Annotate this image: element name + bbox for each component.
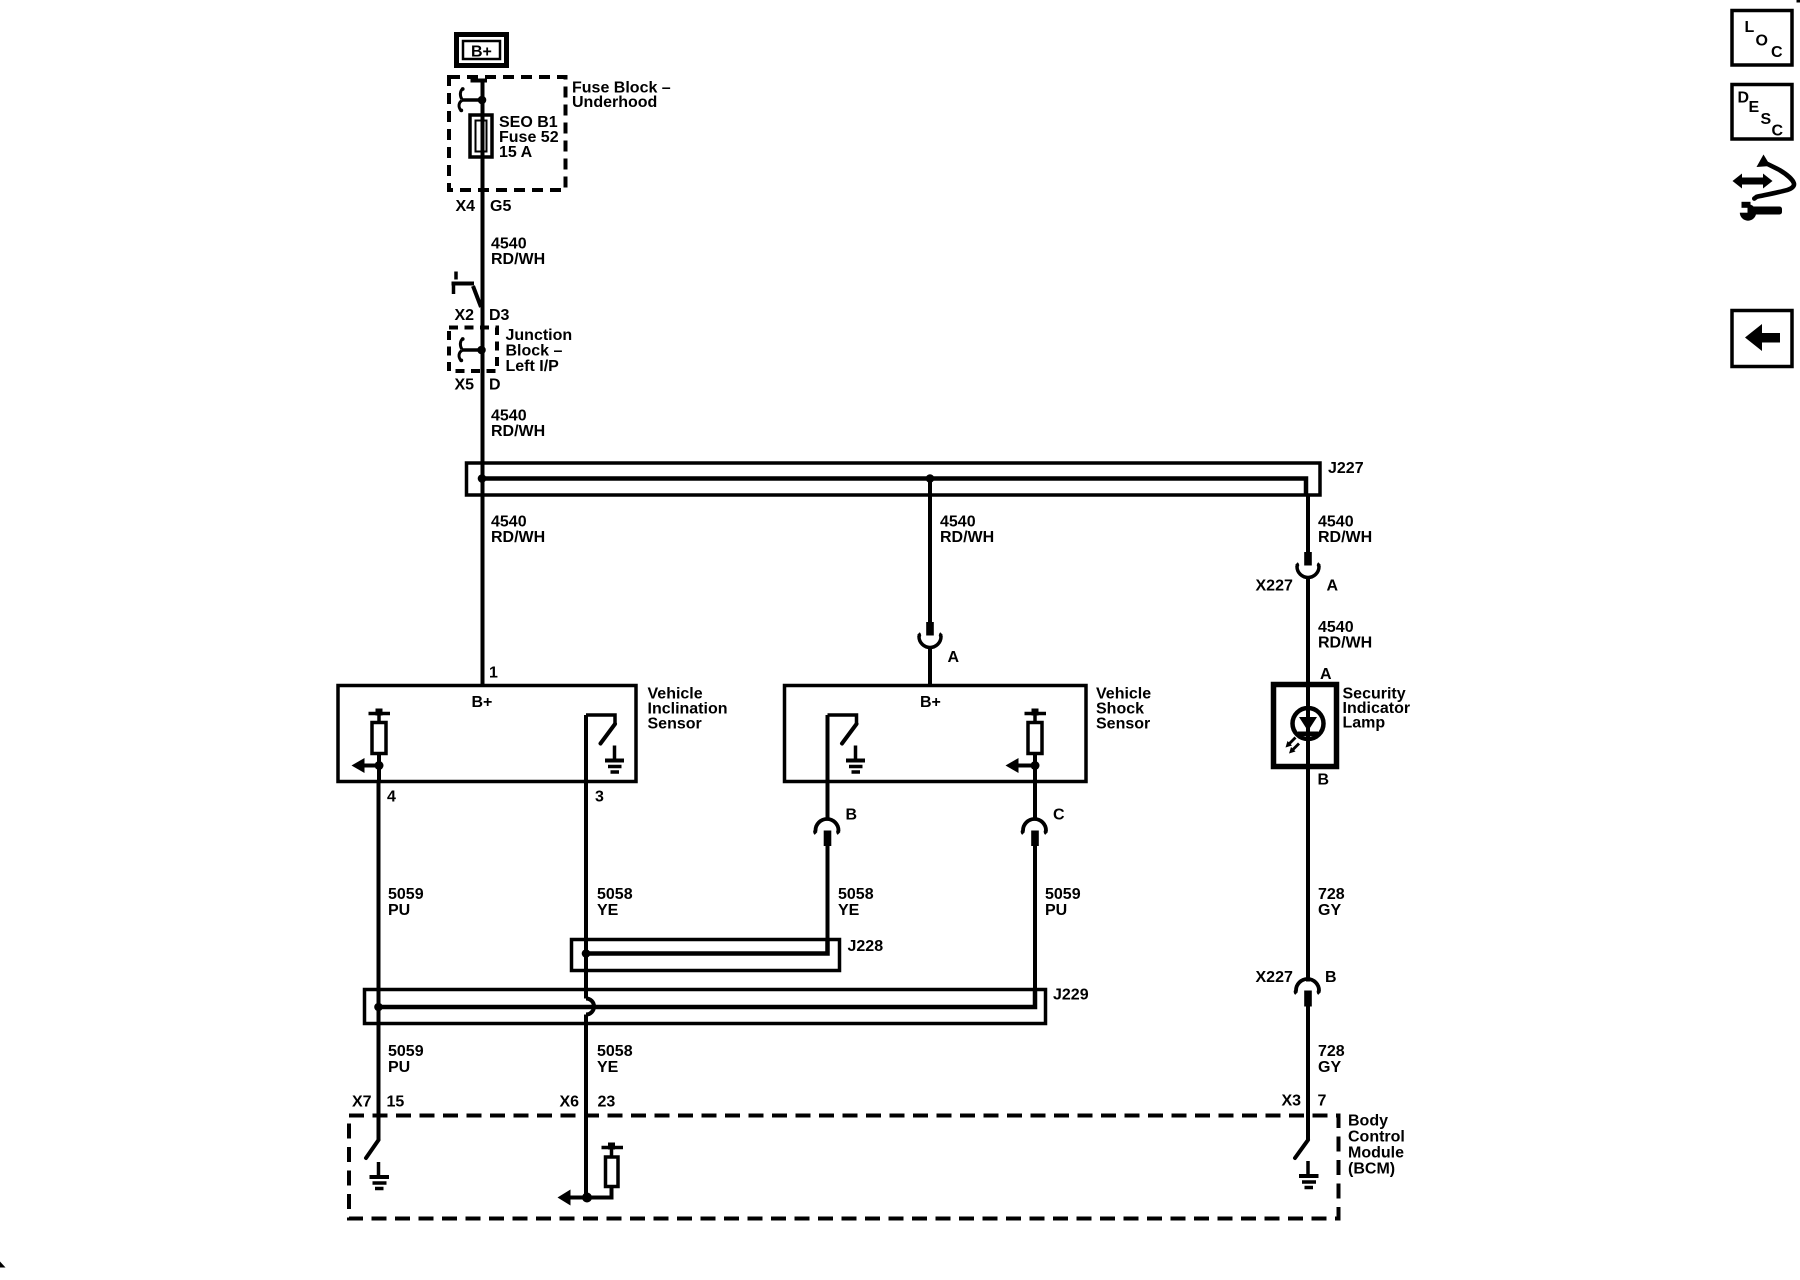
svg-text:GY: GY — [1318, 902, 1341, 919]
wire label 5059 PU (lower) — [388, 1043, 424, 1076]
svg-text:B+: B+ — [472, 694, 493, 711]
svg-text:G5: G5 — [490, 198, 511, 215]
svg-text:X2: X2 — [455, 307, 475, 324]
wire: main B+ feed (vertical, x=482.5) — [471, 79, 488, 686]
svg-text:(BCM): (BCM) — [1348, 1161, 1395, 1178]
svg-text:RD/WH: RD/WH — [1318, 529, 1372, 546]
in-line connector at shock pin C — [828, 782, 1047, 1008]
svg-text:C: C — [1771, 44, 1783, 61]
svg-text:D: D — [1738, 90, 1750, 107]
svg-text:4540: 4540 — [940, 514, 976, 531]
svg-text:X227: X227 — [1256, 578, 1293, 595]
in-line connector X227 / B — [1256, 969, 1337, 1140]
svg-text:Control: Control — [1348, 1129, 1405, 1146]
wire: inclination pin 3 (x=586) — [584, 715, 588, 782]
svg-text:X7: X7 — [352, 1094, 372, 1111]
svg-text:728: 728 — [1318, 886, 1345, 903]
svg-text:B+: B+ — [920, 694, 941, 711]
svg-text:RD/WH: RD/WH — [491, 423, 545, 440]
fuse block underhood (dashed box) — [449, 77, 671, 190]
svg-text:5058: 5058 — [597, 886, 633, 903]
svg-text:4: 4 — [387, 789, 396, 806]
wire label 5059 PU (shock pin C) — [1045, 886, 1081, 919]
power symbol B+ — [457, 35, 507, 66]
svg-text:4540: 4540 — [1318, 619, 1354, 636]
wire label 4540 RD/WH (top) — [491, 236, 545, 269]
svg-text:Module: Module — [1348, 1145, 1404, 1162]
junction block left I/P (dashed box) — [449, 327, 572, 375]
security indicator lamp — [1274, 685, 1411, 767]
page corner mark — [0, 1262, 6, 1268]
vehicle shock sensor box — [785, 686, 1152, 782]
svg-text:L: L — [1745, 19, 1755, 36]
wire label 5058 YE (shock pin B) — [838, 886, 874, 919]
svg-text:X227: X227 — [1256, 969, 1293, 986]
BCM internal resistor + output arrow (X6/23) — [558, 1143, 624, 1206]
svg-text:O: O — [1756, 33, 1768, 50]
svg-text:Left I/P: Left I/P — [506, 358, 560, 375]
svg-text:PU: PU — [1045, 902, 1067, 919]
wire label 728 GY (lamp pin B) — [1318, 886, 1345, 919]
BCM internal switch to ground (X3/7) — [1295, 1140, 1319, 1188]
in-line connector X227 / A — [1256, 552, 1339, 595]
wire label 4540 RD/WH (below junction block) — [491, 408, 545, 441]
icon LOC box — [1732, 11, 1792, 66]
wire label 4540 RD/WH (above lamp) — [1318, 619, 1372, 652]
svg-text:1: 1 — [489, 665, 498, 682]
splice J227 — [467, 460, 1364, 495]
wire: shock pin B (x=827.5) — [826, 715, 830, 820]
svg-text:RD/WH: RD/WH — [491, 251, 545, 268]
svg-text:J228: J228 — [848, 938, 884, 955]
fuse SEO B1 Fuse 52 15 A — [470, 114, 559, 161]
svg-text:C: C — [1772, 123, 1784, 140]
svg-text:4540: 4540 — [491, 408, 527, 425]
svg-text:5059: 5059 — [388, 1043, 424, 1060]
svg-text:Sensor: Sensor — [648, 716, 702, 733]
wire label 728 GY (lower) — [1318, 1043, 1345, 1076]
in-line connector X2 / D3 — [452, 272, 510, 325]
wire label 4540 RD/WH (left branch) — [491, 514, 545, 547]
svg-text:X5: X5 — [455, 376, 475, 393]
svg-text:C: C — [1053, 807, 1065, 824]
svg-text:D: D — [489, 376, 501, 393]
shock sensor internal switch to ground — [828, 715, 866, 772]
terminal curl (fuse block feed) — [459, 87, 486, 112]
svg-text:X6: X6 — [560, 1094, 580, 1111]
icon back arrow box — [1732, 311, 1792, 367]
svg-text:GY: GY — [1318, 1059, 1341, 1076]
svg-text:3: 3 — [595, 789, 604, 806]
svg-text:B+: B+ — [471, 44, 492, 61]
wire label 5058 YE (lower) — [597, 1043, 633, 1076]
svg-text:4540: 4540 — [491, 514, 527, 531]
svg-text:728: 728 — [1318, 1043, 1345, 1060]
svg-text:YE: YE — [597, 1059, 619, 1076]
icon DESC box — [1732, 85, 1792, 140]
svg-text:15 A: 15 A — [499, 144, 533, 161]
svg-text:5058: 5058 — [838, 886, 874, 903]
connector X4 / G5 — [456, 198, 512, 215]
wire label 4540 RD/WH (right branch) — [1318, 514, 1372, 547]
svg-text:B: B — [846, 807, 858, 824]
connector X5 / D — [455, 376, 501, 393]
svg-text:Sensor: Sensor — [1096, 716, 1150, 733]
svg-text:YE: YE — [597, 902, 619, 919]
wire: inclination pin 4 through J229 (x=378.5) — [377, 782, 381, 1141]
in-line connector at shock pin B — [815, 819, 839, 954]
svg-text:YE: YE — [838, 902, 860, 919]
svg-text:Underhood: Underhood — [572, 94, 657, 111]
svg-text:Block –: Block – — [506, 343, 563, 360]
svg-text:A: A — [948, 649, 960, 666]
svg-text:23: 23 — [598, 1094, 616, 1111]
svg-text:5058: 5058 — [597, 1043, 633, 1060]
svg-text:D3: D3 — [489, 307, 510, 324]
svg-text:15: 15 — [387, 1094, 405, 1111]
svg-text:Body: Body — [1348, 1113, 1388, 1130]
wire: inclination pin 3 down with hop over J229 (x=586) — [586, 782, 594, 1198]
shock sensor internal resistor + output arrow — [1006, 709, 1047, 782]
svg-text:PU: PU — [388, 1059, 410, 1076]
BCM internal switch to ground (X7/15) — [366, 1140, 389, 1189]
svg-text:PU: PU — [388, 902, 410, 919]
svg-text:Junction: Junction — [506, 327, 573, 344]
wire label 5058 YE (inclination pin 3) — [597, 886, 633, 919]
wire label 5059 PU (inclination pin 4) — [388, 886, 424, 919]
inclination sensor internal switch to ground — [586, 715, 624, 772]
svg-text:5059: 5059 — [1045, 886, 1081, 903]
wire: J227 to lamp branch (x=1308) — [1306, 495, 1310, 982]
svg-text:5059: 5059 — [388, 886, 424, 903]
svg-text:B: B — [1318, 772, 1330, 789]
svg-text:S: S — [1761, 111, 1772, 128]
vehicle inclination sensor box — [338, 686, 728, 782]
terminal curl (junction block) — [459, 337, 486, 362]
splice J228 — [572, 938, 884, 971]
page corner mark top right — [1797, 0, 1800, 3]
svg-text:J227: J227 — [1328, 460, 1364, 477]
svg-text:E: E — [1749, 99, 1760, 116]
svg-text:7: 7 — [1318, 1093, 1327, 1110]
svg-text:X4: X4 — [456, 198, 476, 215]
pin labels B / C — [846, 807, 1066, 824]
body control module BCM (dashed box) — [349, 1113, 1405, 1219]
connector labels X7 15 / X6 23 / X3 7 — [352, 1093, 1327, 1111]
in-line connector A (shock sensor feed) — [919, 622, 960, 666]
svg-text:A: A — [1327, 578, 1339, 595]
svg-text:RD/WH: RD/WH — [1318, 635, 1372, 652]
pin labels 4 / 3 — [387, 789, 604, 806]
svg-text:4540: 4540 — [1318, 514, 1354, 531]
splice J229 — [365, 987, 1089, 1024]
svg-text:4540: 4540 — [491, 236, 527, 253]
svg-text:A: A — [1320, 666, 1332, 683]
wire label 4540 RD/WH (middle branch) — [940, 514, 994, 547]
icon wiring repair (arrow + wrench + outline) — [1733, 155, 1795, 221]
svg-text:Lamp: Lamp — [1343, 715, 1386, 732]
svg-text:RD/WH: RD/WH — [491, 529, 545, 546]
svg-text:J229: J229 — [1053, 987, 1089, 1004]
svg-text:X3: X3 — [1282, 1093, 1302, 1110]
svg-text:B: B — [1325, 969, 1337, 986]
inclination sensor internal resistor + output arrow — [352, 709, 391, 782]
svg-text:RD/WH: RD/WH — [940, 529, 994, 546]
wire: J227 to shock sensor (x=930) — [928, 479, 932, 686]
